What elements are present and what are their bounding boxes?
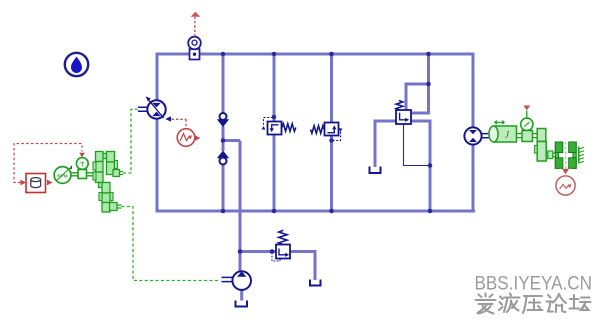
node junction bottom rail at check branch [221,209,226,214]
check valve CV2 [217,151,229,165]
check valve CV1 [217,113,229,127]
wire check-valve branch lower [222,165,225,211]
wire left relief branch lower [273,134,276,211]
relief valve RV2 (right cross-line) [311,123,343,141]
node junction charge relief pilot [270,249,275,254]
node junction top rail at right relief [329,52,334,57]
node arrow into datafile [21,180,27,186]
watermark Chinese characters [476,294,591,314]
pressure sensor tap block [190,49,200,60]
wire motor shaft stub [482,134,492,138]
svg-text:RPM: RPM [57,173,67,178]
wire pressure sensor signal (red dashed, unconnected) [194,17,196,37]
node junction flushing drain pilot tap [428,163,433,168]
wire shaft RPM to sensor [71,173,78,176]
node junction top rail at check branch [221,52,226,57]
wire left rail lower [156,119,159,213]
node arrow datafile to motor RPM [47,180,53,186]
svg-text:BBS.IYEYA.CN: BBS.IYEYA.CN [475,273,593,295]
wire charge line vertical [239,141,242,272]
wire bottom rail [156,210,476,213]
gearbox G1 upper [93,152,118,183]
wire charge pump to tank [240,290,243,301]
flushing/compensator valve V1 [396,100,429,165]
node junction top rail at left relief [272,52,277,57]
wire datafile feedback dashed [14,144,82,183]
wire right rail upper [472,53,475,129]
motor M1 [464,127,481,144]
wire flushing valve left port to tank [375,121,396,167]
pump P1 variable displacement [146,96,166,118]
wire charge pump shaft stub [222,277,233,281]
fluid properties icon [65,53,88,76]
wire charge relief feed [240,250,276,253]
torque scope gauge [556,176,575,195]
gearbox G2 output port block [110,203,122,211]
svg-text:T: T [80,161,84,168]
wire top rail [156,53,475,56]
signal source U1 (piecewise signal) [177,129,200,147]
wire flushing valve feed from top rail [411,54,429,113]
wire green dashed between damper halves [565,142,567,169]
node junction bottom rail at flushing outlet [428,209,433,214]
wire shaft sensor to gearbox [87,173,94,176]
wire charge line horizontal [223,139,240,142]
wire charge relief outlet to tank [290,252,315,281]
relief valve RV1 (left cross-line) [262,118,296,135]
wire control signal dashed from source to pump [172,119,187,128]
speed gauge on load shaft [521,106,533,131]
torque sensor block [78,170,87,179]
wire shaft J to sensor block [517,134,523,138]
gearbox G1 upper output port block [113,170,123,177]
wire green dashed shaft to charge pump P2 [122,207,221,281]
wire check-valve branch upper [222,54,225,113]
node unconnected port arrow above sensor [191,12,201,17]
node junction left relief pilot tap [272,115,277,120]
gearbox G1 middle bar [99,183,110,188]
node pump P1 control port arrow [165,116,171,121]
wire green dashed shaft to pump P1 [123,109,138,173]
prime mover RPM [54,165,72,184]
wire shaft sensor to gear [533,134,538,138]
tank T1 (charge pump suction) [236,301,248,307]
node junction top rail at flushing feed [426,52,431,57]
wire pump P1 shaft stub [138,107,148,111]
tank T2 (flushing drain) [370,167,381,174]
gearbox G2 lower [99,183,113,213]
pressure gauge circle [188,37,201,50]
gear reducer block [535,129,547,162]
node arrow into T sensor [79,153,85,157]
rotary spring-damper right half [569,142,577,168]
load shaft sensor block [522,131,533,142]
node junction bottom rail at right relief [329,209,334,214]
datafile block B1 [26,174,46,193]
wire right relief branch lower [330,135,333,211]
node junction bottom rail at left relief [272,209,277,214]
node junction charge line tee [221,138,226,143]
node junction charge relief tee [238,249,243,254]
wire right relief branch upper [330,54,333,123]
wire right rail lower [472,144,475,213]
rotary load inertia J [489,121,517,142]
wire left relief branch upper [273,54,276,122]
torque sensor T1 gauge [76,158,88,170]
wire left rail upper [156,53,159,102]
node junction right relief pilot tap [329,138,334,143]
node junction flushing pilot corner [426,82,431,87]
wire flushing valve spring-side pilot branch [406,84,429,110]
wire flushing valve outlet to bottom rail [411,121,430,211]
tank T3 (charge relief drain) [310,280,321,286]
charge pump P2 [232,271,251,290]
wire lower shaft with coupling [546,151,555,159]
rotary spring-damper left half [555,142,563,168]
ground wall anchor [579,147,584,164]
node arrow to torque scope [562,169,569,175]
wire check-valve branch middle [222,126,225,151]
relief valve RV3 (charge relief) [272,230,290,261]
